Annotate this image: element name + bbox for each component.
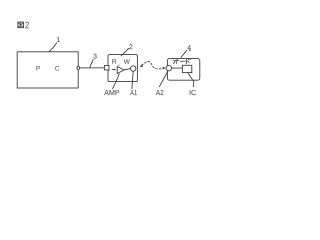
separator dot between R and W <box>118 65 119 66</box>
leader line for reference 4 <box>181 50 187 57</box>
label A1 text <box>130 90 137 95</box>
connector circle on PC right edge <box>77 66 80 69</box>
RF arrowhead toward antenna A1 <box>140 64 143 67</box>
leader line for label AMP <box>113 74 120 89</box>
input arrow into amplifier <box>112 69 115 71</box>
leader line for reference 1 <box>49 43 57 52</box>
cable wire PC to reader-writer <box>80 67 104 69</box>
leader line for label A2 <box>159 71 167 86</box>
label A2 text <box>156 90 164 95</box>
label IC text <box>190 90 196 95</box>
text P <box>37 66 40 70</box>
block 2: reader-writer box <box>108 55 137 82</box>
figure number text 2 <box>25 22 28 29</box>
reference label 2 <box>129 44 132 49</box>
wire antenna A2 to IC chip <box>172 67 183 69</box>
antenna coil A1 circle <box>131 66 136 71</box>
katakana DO of card label <box>187 59 191 64</box>
reference label 1 <box>57 37 60 42</box>
RF arrowhead toward antenna A2 <box>163 67 166 70</box>
label AMP text <box>104 90 119 95</box>
IC chip rectangle <box>182 65 191 72</box>
leader line for label IC <box>188 73 194 87</box>
text W <box>124 59 130 64</box>
amplifier triangle AMP <box>117 66 124 73</box>
katakana long bar of card label <box>180 60 185 62</box>
katakana KA of card label <box>173 59 179 64</box>
antenna coil A2 circle <box>166 65 171 70</box>
RF link dashed wave between antennas <box>142 61 163 68</box>
block 4: IC card box <box>167 59 199 81</box>
leader line for reference 2 <box>121 48 128 55</box>
leader line for reference 3 <box>90 60 94 68</box>
reference label 3 <box>93 54 96 59</box>
leader arrowhead dot at reference 4 <box>189 49 191 51</box>
wire amplifier to antenna A1 <box>124 69 131 70</box>
text C <box>55 66 59 71</box>
text R <box>112 59 116 64</box>
figure number kanji glyph <box>18 22 24 28</box>
reference label 4 <box>187 45 191 50</box>
block 1: personal computer box <box>17 52 78 88</box>
leader line for label A1 <box>132 71 133 88</box>
connector square on reader-writer left edge <box>104 66 109 70</box>
